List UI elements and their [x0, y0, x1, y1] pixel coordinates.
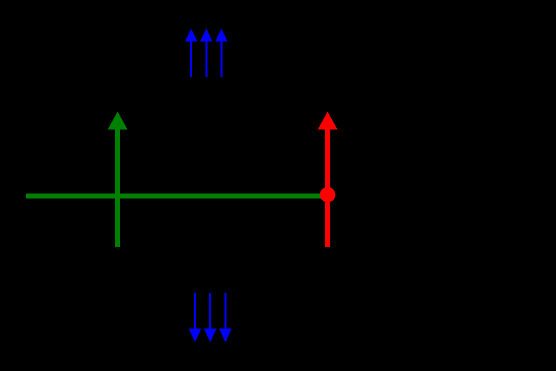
green force arrow F1 (vertical, up)	[108, 112, 128, 247]
distributed load down arrow B6 (blue, bottom right)	[219, 293, 231, 342]
distributed load down arrow B4 (blue, bottom left)	[189, 293, 201, 342]
green horizontal axis line (wire)	[26, 194, 328, 199]
distributed load up arrow B3 (blue, top right)	[215, 29, 227, 77]
red resultant force arrow F2 (vertical, up)	[318, 112, 338, 247]
red point-of-application dot (node)	[320, 187, 335, 202]
distributed load down arrow B5 (blue, bottom middle)	[204, 293, 216, 342]
distributed load up arrow B1 (blue, top left)	[185, 29, 197, 77]
distributed load up arrow B2 (blue, top middle)	[200, 29, 212, 77]
